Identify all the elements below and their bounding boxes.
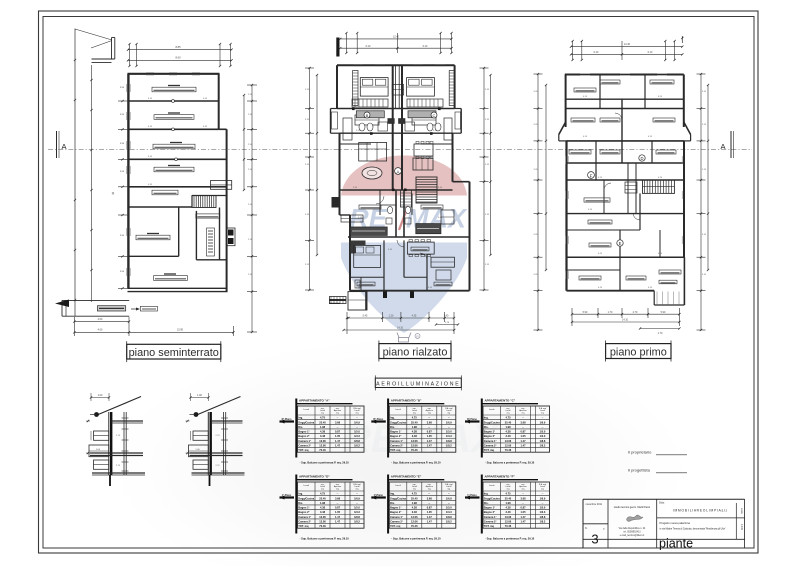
svg-text:Locali: Locali	[489, 409, 495, 411]
svg-text:scala: scala	[740, 508, 743, 514]
svg-text:3.48: 3.48	[320, 434, 326, 438]
svg-text:Locali: Locali	[395, 485, 401, 487]
table A: left heavy bar	[295, 399, 297, 458]
table C: title underline bar	[481, 403, 538, 405]
svg-text:R° Piano: R° Piano	[373, 418, 383, 421]
svg-text:Sogg/Cucina: Sogg/Cucina	[484, 496, 500, 500]
svg-text:TOT. mq: TOT. mq	[298, 448, 309, 452]
left plan: room divider 2	[128, 128, 218, 130]
svg-text:mq: mq	[447, 413, 450, 415]
svg-text:1/6.9: 1/6.9	[446, 496, 452, 500]
left plan: room divider 3	[128, 158, 226, 160]
svg-text:R° Piano: R° Piano	[467, 418, 477, 421]
svg-text:6.10: 6.10	[648, 51, 653, 54]
right plan: divider row 6	[567, 213, 685, 215]
watermark balloon red top	[341, 156, 467, 196]
svg-text:1/8.2: 1/8.2	[540, 520, 546, 524]
svg-text:mq: mq	[522, 413, 525, 415]
svg-text:TOT. mq: TOT. mq	[484, 448, 495, 452]
svg-text:Camera 1°: Camera 1°	[484, 439, 497, 443]
svg-text:E: E	[619, 241, 622, 246]
svg-text:1.05: 1.05	[335, 434, 341, 438]
svg-text:mq: mq	[541, 489, 544, 491]
watermark registered mark	[415, 334, 420, 339]
left plan: inner wall vertical	[178, 207, 180, 256]
svg-text:mq: mq	[321, 413, 324, 415]
table D: floor arrow	[280, 496, 295, 498]
left plan: staircase	[192, 196, 216, 208]
wall section 1: left dim ticks	[86, 420, 90, 422]
svg-text:1/8.2: 1/8.2	[354, 444, 360, 448]
middle plan: central shaft walls	[392, 65, 394, 190]
svg-text:APPARTAMENTO "E": APPARTAMENTO "E"	[391, 475, 422, 479]
middle plan: top dim tick stacks	[345, 33, 347, 53]
right plan: circled letter E	[617, 240, 623, 246]
left plan: corridor label box	[152, 190, 178, 195]
left plan: building outer walls	[128, 73, 220, 75]
svg-text:mq: mq	[356, 413, 359, 415]
middle plan: mid room left cabinets	[355, 115, 379, 125]
svg-text:mq: mq	[356, 489, 359, 491]
svg-text:6.10: 6.10	[594, 51, 599, 54]
svg-text:1/5.0: 1/5.0	[540, 430, 546, 434]
right plan: divider row 4	[567, 162, 685, 164]
right plan: small stair mid	[625, 182, 637, 193]
svg-text:Il proprietario: Il proprietario	[628, 450, 652, 455]
right plan: bottom dimension line 2	[572, 321, 679, 323]
svg-text:1/6.9: 1/6.9	[446, 420, 452, 424]
right plan: divider row 7	[567, 229, 641, 231]
right plan: left dimension chain 2	[545, 85, 547, 270]
left plan: left wall dimension ticks	[118, 100, 128, 102]
left plan: reference line ticks	[90, 79, 92, 81]
middle plan: bathroom left fixtures	[356, 111, 384, 118]
svg-text:1.00: 1.00	[98, 394, 103, 397]
svg-text:1/8.8: 1/8.8	[446, 515, 452, 519]
svg-text:--: --	[448, 502, 450, 505]
middle plan: bedroom right bed	[407, 78, 435, 97]
svg-text:--: --	[542, 493, 544, 496]
svg-text:1.47: 1.47	[335, 515, 341, 519]
svg-text:1° Piano: 1° Piano	[467, 494, 477, 497]
svg-text:Ing.: Ing.	[390, 416, 395, 420]
svg-text:Sogg/Cucina: Sogg/Cucina	[390, 496, 406, 500]
left plan: exterior ramp arrow label	[131, 308, 136, 310]
svg-text:Il progettista: Il progettista	[628, 468, 651, 473]
svg-text:1/8.8: 1/8.8	[540, 515, 546, 519]
svg-text:--: --	[356, 417, 358, 420]
svg-text:1/8.2: 1/8.2	[446, 520, 452, 524]
svg-text:N.: N.	[585, 527, 588, 530]
table E: title underline bar	[387, 479, 444, 481]
svg-text:1/5.0: 1/5.0	[354, 506, 360, 510]
wall section 1: foundation stub	[109, 475, 111, 486]
svg-text:0.87: 0.87	[335, 430, 341, 434]
svg-text:4.75: 4.75	[505, 416, 511, 420]
left plan: external chimney walkway	[111, 38, 113, 60]
svg-text:0.87: 0.87	[335, 506, 341, 510]
left plan: room label box 2	[154, 115, 194, 120]
right plan: building left wall lower	[565, 141, 567, 291]
left plan: top dimension line 1	[128, 49, 232, 51]
wall section 2: main wall	[207, 412, 209, 475]
svg-text:Bagno 2°: Bagno 2°	[298, 434, 309, 438]
svg-text:Camera 1°: Camera 1°	[298, 439, 311, 443]
svg-text:B: B	[366, 113, 369, 118]
middle plan: central corridor lower	[395, 190, 397, 237]
svg-text:APPARTAMENTO "D": APPARTAMENTO "D"	[299, 475, 330, 479]
svg-text:--: --	[356, 502, 358, 505]
svg-text:1/5.0: 1/5.0	[446, 430, 452, 434]
svg-text:A: A	[720, 142, 725, 151]
svg-text:e-mail_tecnico@libero.it: e-mail_tecnico@libero.it	[620, 534, 645, 537]
svg-text:1.98: 1.98	[412, 501, 418, 505]
title block: horizontal dividers	[583, 523, 608, 525]
middle plan: divider 3 partial	[340, 143, 372, 145]
svg-text:3.68: 3.68	[427, 420, 433, 424]
svg-text:piano primo: piano primo	[610, 347, 667, 359]
table F: grid	[483, 482, 550, 528]
svg-text:1.70: 1.70	[608, 311, 613, 314]
svg-text:- Sup. Balcone a pertinenza P.: - Sup. Balcone a pertinenza P. mq. 29.10	[391, 461, 441, 465]
right plan: bottom dim vertical ticks	[571, 308, 573, 326]
svg-text:Bagno 1°: Bagno 1°	[298, 430, 309, 434]
svg-text:3.68: 3.68	[335, 496, 341, 500]
right plan: top dim tick stacks	[572, 41, 574, 60]
svg-text:Bagno 1°: Bagno 1°	[484, 430, 495, 434]
svg-text:1/3.3: 1/3.3	[354, 434, 360, 438]
svg-text:--: --	[522, 417, 524, 420]
right plan: room label boxes lower	[584, 198, 610, 202]
svg-text:Dis.: Dis.	[298, 501, 303, 505]
svg-text:0.87: 0.87	[427, 506, 433, 510]
svg-text:Ing.: Ing.	[484, 492, 489, 496]
svg-text:mq: mq	[413, 413, 416, 415]
svg-text:3.68: 3.68	[427, 496, 433, 500]
middle plan: divider 2	[340, 132, 453, 134]
svg-text:1/8.8: 1/8.8	[446, 439, 452, 443]
left plan: top wall window openings	[146, 72, 154, 74]
svg-text:5.90: 5.90	[583, 311, 588, 314]
left plan: bottom dimension line short	[74, 321, 129, 323]
table C: left heavy bar	[481, 399, 483, 458]
svg-text:25.40: 25.40	[319, 496, 326, 500]
svg-text:1.47: 1.47	[520, 520, 526, 524]
middle plan: living right table	[414, 144, 433, 156]
svg-text:Locali: Locali	[395, 409, 401, 411]
table D: grid	[298, 482, 365, 528]
left plan: lower-right room label	[196, 214, 220, 218]
svg-text:1/8.2: 1/8.2	[446, 444, 452, 448]
svg-text:Ing.: Ing.	[298, 416, 303, 420]
svg-text:--: --	[428, 417, 430, 420]
right plan: building top wall	[565, 74, 684, 76]
svg-text:Bagno 1°: Bagno 1°	[484, 506, 495, 510]
svg-text:in via Madre Teresa di Calcutt: in via Madre Teresa di Calcutta, denomin…	[660, 528, 726, 531]
svg-text:12.40: 12.40	[624, 43, 631, 46]
svg-text:Bagno 2°: Bagno 2°	[484, 434, 495, 438]
svg-text:Bagno 2°: Bagno 2°	[484, 510, 495, 514]
svg-text:1.00: 1.00	[197, 394, 202, 397]
svg-text:- Sup. Balcone a pertinenza P.: - Sup. Balcone a pertinenza P. mq. 29.10	[485, 537, 535, 541]
middle plan: lower-right desk	[431, 257, 454, 267]
svg-text:--: --	[522, 493, 524, 496]
svg-text:1.05: 1.05	[520, 510, 526, 514]
table C: grid	[483, 406, 550, 452]
svg-text:--: --	[337, 493, 339, 496]
left plan: title box piano seminterrato	[127, 344, 221, 359]
wall section 1: parapet lower	[94, 460, 109, 469]
wall section 1: parapet upper	[94, 431, 109, 440]
svg-text:Dis.: Dis.	[484, 425, 489, 429]
middle plan: living left sofa	[359, 143, 387, 162]
svg-text:APPARTAMENTO "C": APPARTAMENTO "C"	[485, 399, 516, 403]
svg-text:Sogg/Cucina: Sogg/Cucina	[298, 420, 314, 424]
svg-text:TOT. mq: TOT. mq	[298, 524, 309, 528]
svg-text:--: --	[356, 493, 358, 496]
middle plan: right dimension chain 2	[490, 75, 492, 255]
wall section 2: upper floor slab	[211, 420, 243, 422]
svg-text:1.05: 1.05	[335, 510, 341, 514]
svg-text:- Sup. Balcone a pertinenza P.: - Sup. Balcone a pertinenza P. mq. 29.10	[485, 461, 535, 465]
svg-text:||||: ||||	[112, 192, 115, 195]
svg-text:6.10: 6.10	[423, 45, 428, 48]
right plan: building right wall lower	[683, 141, 685, 257]
right plan: room label boxes top	[574, 88, 596, 92]
wall section 1: roof diagonal	[97, 397, 141, 416]
middle plan: circled letter B	[364, 112, 370, 118]
svg-text:25.40: 25.40	[411, 420, 418, 424]
middle plan: top-left black wall mark	[336, 38, 339, 57]
svg-text:12.06: 12.06	[411, 520, 418, 524]
svg-text:1/8.8: 1/8.8	[540, 439, 546, 443]
svg-text:1.47: 1.47	[520, 444, 526, 448]
wall section 1: upper floor slab	[111, 420, 143, 422]
svg-text:Camera 2°: Camera 2°	[298, 444, 311, 448]
right plan: title box piano primo	[606, 344, 671, 359]
middle plan: mid room right cabinets	[412, 115, 436, 125]
svg-text:--: --	[448, 493, 450, 496]
svg-text:- Sup. Balcone a pertinenza P.: - Sup. Balcone a pertinenza P. mq. 29.10	[300, 461, 350, 465]
wall section 2: parapet lower	[193, 460, 208, 469]
svg-text:70.46: 70.46	[319, 524, 326, 528]
middle plan: building bottom wall	[350, 290, 470, 292]
svg-text:mq: mq	[413, 489, 416, 491]
svg-text:Camera 2°: Camera 2°	[390, 520, 403, 524]
svg-text:TOT. mq: TOT. mq	[390, 448, 401, 452]
middle plan: bedroom left furniture	[352, 99, 388, 107]
left plan: secondary vertical line	[91, 65, 93, 302]
table E: left heavy bar	[387, 475, 389, 534]
middle plan: bottom dim vertical ticks	[346, 312, 348, 334]
svg-text:1.98: 1.98	[320, 501, 326, 505]
svg-text:4.38: 4.38	[505, 506, 511, 510]
middle plan: pink band bottom wall	[340, 189, 453, 191]
svg-text:1/5.0: 1/5.0	[540, 506, 546, 510]
svg-text:0.87: 0.87	[520, 430, 526, 434]
svg-text:14.10: 14.10	[622, 319, 629, 322]
svg-text:1/8.8: 1/8.8	[354, 515, 360, 519]
svg-text:8.85: 8.85	[175, 45, 181, 49]
svg-text:mq: mq	[336, 489, 339, 491]
right plan: divider row 1	[566, 98, 684, 100]
right plan: divider row 2	[566, 108, 684, 110]
svg-text:1.47: 1.47	[335, 520, 341, 524]
svg-text:A: A	[396, 169, 399, 174]
svg-text:1:100: 1:100	[740, 524, 743, 531]
middle plan: kitchen left counter	[350, 227, 387, 235]
svg-text:1.47: 1.47	[427, 444, 433, 448]
svg-text:Locali: Locali	[304, 485, 310, 487]
right plan: side wall window openings	[565, 156, 567, 164]
middle plan: circled letter A	[395, 168, 402, 175]
svg-text:Ing.: Ing.	[298, 492, 303, 496]
svg-text:1/5.0: 1/5.0	[354, 430, 360, 434]
svg-text:Via della Repubblica n. 24: Via della Repubblica n. 24	[619, 528, 646, 530]
wall section 2: parapet mid	[189, 445, 209, 457]
svg-text:70.46: 70.46	[319, 448, 326, 452]
svg-text:A: A	[61, 142, 66, 151]
middle plan: bathroom right fixtures	[408, 111, 436, 118]
svg-text:Camera 2°: Camera 2°	[298, 520, 311, 524]
svg-text:Locali: Locali	[304, 409, 310, 411]
middle plan: central stair small	[401, 190, 412, 207]
svg-text:APPARTAMENTO "A": APPARTAMENTO "A"	[299, 399, 330, 403]
svg-text:1/3.3: 1/3.3	[446, 434, 452, 438]
svg-text:Bagno 1°: Bagno 1°	[390, 506, 401, 510]
svg-text:--: --	[428, 493, 430, 496]
wall section 1: inner wall	[123, 412, 125, 475]
svg-text:6.10: 6.10	[366, 45, 371, 48]
svg-text:0.87: 0.87	[427, 430, 433, 434]
middle plan: lower area walls	[383, 240, 385, 290]
svg-text:TOT. mq: TOT. mq	[390, 524, 401, 528]
right plan: circled letter D	[639, 155, 645, 161]
middle plan: bedroom left bed	[360, 78, 388, 97]
left plan: bottom dim vertical ticks	[73, 317, 75, 336]
svg-text:RE/MAX: RE/MAX	[342, 417, 500, 461]
wall section 2: inner wall	[223, 412, 225, 475]
svg-text:1/3.3: 1/3.3	[354, 510, 360, 514]
middle plan: left dimension chain	[309, 68, 311, 290]
svg-text:Progetto nuova palazzina: Progetto nuova palazzina	[660, 521, 691, 525]
wall section 2: parapet upper	[193, 431, 208, 440]
svg-text:25.40: 25.40	[319, 420, 326, 424]
svg-text:3.68: 3.68	[520, 496, 526, 500]
right plan: extra bottom dim	[640, 328, 679, 330]
table D: left heavy bar	[295, 475, 297, 534]
svg-text:13.06: 13.06	[319, 515, 326, 519]
svg-text:--: --	[428, 502, 430, 505]
left plan: top dimension line 2	[128, 59, 232, 61]
middle plan: building left wall mid	[339, 133, 341, 215]
right plan: left chamfer	[559, 122, 566, 135]
svg-text:4.75: 4.75	[412, 492, 418, 496]
middle plan: kitchen right counter	[416, 224, 441, 234]
svg-text:mq: mq	[447, 489, 450, 491]
svg-text:APPARTAMENTO "F": APPARTAMENTO "F"	[485, 475, 516, 479]
svg-text:25.40: 25.40	[411, 496, 418, 500]
svg-text:Ditta:: Ditta:	[659, 502, 665, 505]
wall section 2: eaves dot	[194, 412, 199, 417]
table B: grid	[389, 406, 456, 452]
svg-text:1.98: 1.98	[320, 425, 326, 429]
svg-text:mq: mq	[507, 489, 510, 491]
svg-text:--: --	[448, 417, 450, 420]
svg-text:1/8.2: 1/8.2	[540, 444, 546, 448]
left plan: right step balcony	[211, 181, 232, 190]
right plan: building right wall upper	[683, 75, 685, 128]
svg-text:3.48: 3.48	[505, 510, 511, 514]
left plan: right-side dim chain 2	[243, 95, 245, 190]
middle plan: left exterior stair hatch	[330, 297, 347, 304]
svg-text:13.06: 13.06	[411, 515, 418, 519]
left plan: left wall window openings	[126, 84, 128, 92]
right plan: door arcs	[604, 183, 611, 190]
svg-text:--: --	[428, 426, 430, 429]
svg-text:Sogg/Cucina: Sogg/Cucina	[484, 420, 500, 424]
right plan: left dimension chain	[537, 74, 539, 330]
svg-text:4.38: 4.38	[505, 430, 511, 434]
svg-text:I M M O B I L I A R E O L I: I M M O B I L I A R E O L I M P I A s.r.…	[673, 509, 728, 513]
wall section 2: top dim line	[191, 397, 209, 399]
middle plan: lower small rooms	[360, 277, 362, 290]
middle plan: extra bottom dim right	[436, 324, 458, 326]
title block: outer lines	[583, 498, 745, 500]
svg-text:1° Piano: 1° Piano	[282, 494, 292, 497]
svg-text:1/6.9: 1/6.9	[354, 420, 360, 424]
svg-text:1/3.3: 1/3.3	[446, 510, 452, 514]
svg-text:70.46: 70.46	[505, 524, 512, 528]
svg-text:mq: mq	[321, 489, 324, 491]
svg-text:12.40: 12.40	[393, 36, 400, 39]
right plan: right dimension chain	[700, 74, 702, 330]
svg-text:1.47: 1.47	[520, 515, 526, 519]
middle plan: dining left oval table	[362, 167, 382, 179]
wall section 1: mid floor slab	[90, 452, 143, 454]
right plan: bottom-right terrace hatch	[656, 292, 658, 305]
wall section 1: eaves dot	[94, 412, 99, 417]
svg-text:1/6.9: 1/6.9	[540, 496, 546, 500]
middle plan: central stairs	[416, 177, 437, 203]
middle plan: bedroom right furniture	[407, 99, 443, 107]
left plan: top-right dim tick stack	[219, 44, 221, 66]
svg-text:1/6.9: 1/6.9	[354, 496, 360, 500]
svg-text:Ing.: Ing.	[390, 492, 395, 496]
svg-text:--: --	[448, 426, 450, 429]
middle plan: left dimension chain 2	[316, 75, 318, 255]
svg-text:studio tecnico geom. Marti Pie: studio tecnico geom. Marti Pietro	[614, 506, 651, 509]
middle plan: lower-left bed	[354, 245, 381, 267]
svg-text:D: D	[640, 156, 643, 161]
middle plan: divider under bedrooms	[337, 108, 455, 110]
svg-text:25.40: 25.40	[505, 420, 512, 424]
right plan: building bottom wall	[567, 290, 655, 292]
left plan: room label box 1	[152, 87, 196, 92]
svg-text:3: 3	[591, 532, 598, 547]
svg-text:mq: mq	[428, 489, 431, 491]
svg-text:12.06: 12.06	[319, 520, 326, 524]
right plan: bottom-right protrusion	[653, 291, 655, 305]
svg-text:1.05: 1.05	[427, 510, 433, 514]
wall section 1: main wall	[108, 412, 110, 475]
wall section 2: foundation stub	[209, 475, 211, 486]
svg-text:3.68: 3.68	[335, 420, 341, 424]
svg-text:Bagno 2°: Bagno 2°	[390, 510, 401, 514]
table F: title underline bar	[481, 479, 538, 481]
svg-text:mq: mq	[428, 413, 431, 415]
svg-text:4.60: 4.60	[98, 318, 103, 321]
